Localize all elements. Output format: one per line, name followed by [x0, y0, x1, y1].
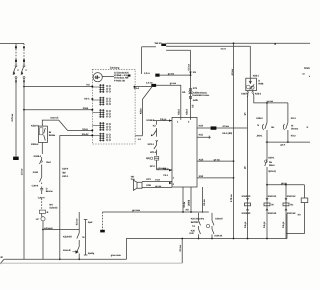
svg-text:0.5 sw: 0.5 sw	[203, 199, 206, 206]
svg-text:BATRN: BATRN	[191, 221, 199, 224]
svg-text:KS30-B7: KS30-B7	[63, 235, 73, 238]
svg-text:Schreib: Schreib	[49, 206, 58, 209]
svg-text:0.75 sw: 0.75 sw	[11, 114, 14, 122]
svg-text:0.75 sw: 0.75 sw	[230, 194, 233, 202]
svg-text:0.5 sw: 0.5 sw	[75, 218, 78, 225]
svg-text:KS: KS	[193, 71, 197, 74]
svg-text:KS6-3: KS6-3	[255, 93, 262, 96]
svg-text:KS6-5: KS6-5	[241, 93, 248, 96]
svg-text:gn sw: gn sw	[155, 185, 161, 188]
svg-text:KS: KS	[87, 84, 91, 87]
svg-text:gn rt: gn rt	[280, 144, 285, 147]
svg-text:MO: MO	[306, 67, 310, 70]
svg-text:KS-C: KS-C	[84, 97, 90, 100]
svg-text:KS-B: KS-B	[83, 107, 89, 110]
svg-text:M: M	[82, 236, 84, 239]
svg-text:K10 100xxPa: K10 100xxPa	[191, 218, 205, 221]
svg-text:KS10-12: KS10-12	[287, 195, 296, 198]
svg-text:K30-1: K30-1	[62, 175, 69, 178]
svg-text:KS10-11: KS10-11	[268, 195, 277, 198]
svg-text:KS12: KS12	[178, 109, 181, 115]
svg-text:KS9-34: KS9-34	[215, 235, 223, 238]
svg-text:2pol: 2pol	[88, 221, 93, 224]
svg-text:1.5 sw: 1.5 sw	[21, 168, 24, 175]
svg-text:Rad: Rad	[46, 161, 51, 164]
svg-text:KS-A2: KS-A2	[82, 133, 89, 136]
svg-text:KS10-10: KS10-10	[242, 195, 251, 198]
svg-text:KS16-2: KS16-2	[31, 143, 39, 146]
svg-text:0.5 sw: 0.5 sw	[188, 64, 191, 71]
svg-text:Brems: Brems	[46, 190, 54, 193]
svg-text:4.0 sw: 4.0 sw	[231, 69, 234, 76]
svg-text:RHB: RHB	[258, 82, 263, 85]
svg-text:rt sw: rt sw	[155, 179, 160, 182]
svg-text:KP-2: KP-2	[150, 165, 156, 168]
svg-text:4.0 sw: 4.0 sw	[222, 125, 229, 128]
svg-text:KP1-2: KP1-2	[150, 151, 157, 154]
svg-text:ws rt: ws rt	[221, 48, 226, 51]
svg-text:gn ws: gn ws	[170, 82, 177, 85]
svg-text:3polig: 3polig	[88, 252, 95, 255]
svg-text:C3-1: C3-1	[163, 174, 168, 177]
svg-text:K0-4: K0-4	[291, 117, 296, 120]
svg-text:4(2): 4(2)	[146, 157, 150, 160]
svg-text:KS0-87: KS0-87	[215, 218, 223, 221]
svg-text:KS-D: KS-D	[163, 168, 169, 171]
svg-text:C30+4: C30+4	[32, 184, 39, 187]
svg-text:gr: gr	[274, 42, 276, 45]
svg-text:2x85: 2x85	[193, 99, 199, 102]
svg-text:1,0 ro: 1,0 ro	[144, 72, 150, 75]
svg-text:gn ws: gn ws	[214, 158, 221, 161]
svg-text:KS16-4: KS16-4	[31, 124, 39, 127]
svg-text:KS10-31: KS10-31	[268, 212, 277, 215]
svg-text:0.5 gn: 0.5 gn	[244, 221, 247, 228]
svg-text:KS9-1: KS9-1	[268, 157, 275, 160]
svg-text:gn rosa: gn rosa	[132, 209, 141, 212]
svg-text:0.5 br: 0.5 br	[183, 202, 186, 208]
svg-text:P Parkl. 58: P Parkl. 58	[114, 79, 126, 82]
svg-text:KS6-1: KS6-1	[253, 74, 260, 77]
svg-text:K30-4: K30-4	[62, 168, 69, 171]
svg-text:KS10-30: KS10-30	[242, 212, 251, 215]
svg-text:3mm B: 3mm B	[63, 249, 71, 252]
svg-text:schwarz: schwarz	[44, 227, 54, 230]
svg-text:1(24+1): 1(24+1)	[268, 170, 276, 173]
svg-text:(1500): (1500)	[188, 200, 191, 207]
svg-text:KS10-32: KS10-32	[287, 212, 296, 215]
svg-text:rosa 0.5: rosa 0.5	[50, 117, 59, 120]
svg-text:WK 30: WK 30	[155, 42, 162, 45]
svg-text:KS16: KS16	[140, 108, 143, 114]
svg-text:Kontrolle Fernw.: Kontrolle Fernw.	[192, 94, 209, 97]
svg-text:grau rosa: grau rosa	[111, 254, 122, 257]
svg-text:Brems: Brems	[291, 127, 299, 130]
svg-text:0.5 gn: 0.5 gn	[263, 221, 266, 228]
svg-text:0.5 gn: 0.5 gn	[160, 118, 167, 121]
svg-text:Zündung: Zündung	[110, 67, 120, 70]
svg-text:KS14: KS14	[185, 109, 188, 115]
svg-text:KS-A: KS-A	[82, 128, 88, 131]
svg-text:KS8-2: KS8-2	[256, 117, 263, 120]
svg-text:0.5 gn: 0.5 gn	[282, 221, 285, 228]
svg-text:KS-A: KS-A	[134, 87, 140, 90]
svg-text:K0-2: K0-2	[291, 134, 296, 137]
svg-text:Relais: Relais	[49, 134, 56, 137]
svg-text:K4-B: K4-B	[33, 171, 38, 174]
svg-text:JK8-1: JK8-1	[256, 134, 263, 137]
svg-text:KP4-1: KP4-1	[148, 143, 155, 146]
svg-text:Warn: Warn	[269, 164, 275, 167]
svg-text:gn ws: gn ws	[168, 72, 175, 75]
svg-text:LP: LP	[36, 218, 39, 221]
svg-text:K6-1 (4Ω): K6-1 (4Ω)	[222, 132, 232, 135]
svg-text:KS16-B: KS16-B	[147, 119, 155, 122]
svg-text:x: x	[309, 75, 310, 78]
svg-text:gn ge: gn ge	[281, 182, 288, 185]
svg-text:KS16-2: KS16-2	[34, 155, 42, 158]
svg-text:0.5 sw: 0.5 sw	[179, 245, 182, 252]
